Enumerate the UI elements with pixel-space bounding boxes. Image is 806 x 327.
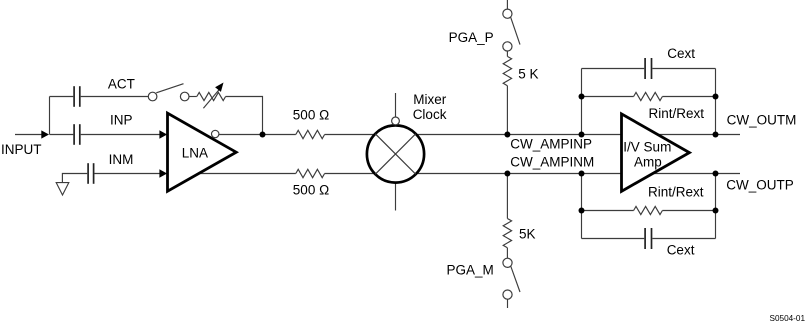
wire feedback top-right vertical: [715, 69, 717, 135]
svg-text:Cext: Cext: [667, 242, 695, 257]
arrow INPUT: [41, 130, 49, 138]
switch ACT lever: [156, 84, 183, 93]
wire LNA top output line: [219, 134, 296, 136]
svg-text:CW_OUTP: CW_OUTP: [726, 177, 794, 192]
junction dot Rint bottom right: [713, 208, 719, 214]
svg-text:INPUT: INPUT: [1, 142, 42, 157]
svg-text:CW_AMPINM: CW_AMPINM: [510, 154, 594, 169]
resistor ACT variable zigzag: [197, 92, 226, 100]
arrow INM into LNA: [159, 169, 167, 178]
wire Rint/Rext top branch left: [582, 96, 634, 98]
wire Rint/Rext top branch right: [662, 96, 715, 98]
svg-text:INP: INP: [110, 112, 133, 127]
svg-text:5 K: 5 K: [518, 67, 538, 82]
svg-text:500 Ω: 500 Ω: [293, 108, 329, 123]
wire ground stub INM: [62, 174, 87, 183]
wire INM segment to LNA: [95, 173, 161, 175]
svg-text:Amp: Amp: [634, 155, 662, 170]
svg-text:PGA_P: PGA_P: [449, 30, 494, 45]
switch PGA_P lever: [511, 17, 520, 44]
svg-text:Clock: Clock: [413, 107, 447, 122]
wire INP segment to LNA: [81, 134, 161, 136]
svg-text:ACT: ACT: [108, 76, 135, 91]
resistor 5K zigzag: [503, 219, 511, 248]
junction dot ACT-main: [260, 132, 266, 138]
capacitor Cext bottom: [645, 228, 651, 249]
wire ACT segment switch to varistor: [189, 96, 197, 98]
resistor Rint/Rext bottom zigzag: [634, 206, 663, 214]
svg-text:I/V Sum: I/V Sum: [623, 139, 671, 154]
svg-text:Rint/Rext: Rint/Rext: [649, 106, 705, 121]
switch PGA_M circle top: [503, 258, 512, 267]
varistor arrow diagonal: [203, 89, 219, 108]
wire 5K resistor to PGA_M switch: [506, 248, 508, 258]
junction dot CW_AMPINP feedback: [579, 132, 585, 138]
wire feedback bottom-right vertical: [715, 174, 717, 239]
switch ACT circle right: [180, 92, 189, 101]
LNA output bubble: [212, 130, 219, 137]
svg-text:Rint/Rext: Rint/Rext: [648, 184, 704, 199]
junction dot Rint top right: [713, 94, 719, 100]
svg-text:LNA: LNA: [182, 146, 208, 161]
junction dot output top: [713, 132, 719, 138]
wire Cext top branch right: [652, 68, 715, 70]
wire PGA_P top stub: [506, 0, 508, 9]
wire ACT segment left of cap: [50, 96, 74, 98]
wire INPUT lead: [15, 134, 42, 136]
wire ACT return to main line: [226, 97, 263, 135]
arrow INP into LNA: [159, 130, 167, 139]
svg-text:S0504-01: S0504-01: [770, 314, 806, 322]
op-amp U2 I/V Sum Amp: [622, 114, 690, 191]
wire PGA_M bottom stub: [507, 299, 509, 308]
junction dot PGA_P main: [504, 132, 510, 138]
resistor Rint/Rext top zigzag: [634, 92, 663, 100]
junction dot Rint bottom left: [579, 208, 585, 214]
switch PGA_M circle bottom: [503, 290, 512, 299]
wire mixer clock top stub: [395, 93, 397, 117]
resistor 5 K zigzag: [503, 56, 511, 85]
wire PGA_P switch to resistor: [506, 51, 508, 56]
svg-text:PGA_M: PGA_M: [447, 262, 494, 277]
wire bottom chain line to CW_OUTP: [325, 173, 740, 175]
op-amp LNA: [168, 113, 237, 191]
capacitor INM coupling: [88, 163, 94, 184]
wire top chain line to CW_OUTM: [325, 134, 740, 136]
varistor arrowhead: [215, 83, 223, 92]
wire mixer bottom stub: [395, 183, 397, 211]
capacitor ACT coupling: [74, 86, 80, 107]
wire node branch vertical to ACT row: [49, 97, 51, 135]
svg-text:CW_AMPINP: CW_AMPINP: [510, 136, 592, 151]
junction dot Rint top left: [579, 94, 585, 100]
wire Rint/Rext bottom branch right: [662, 210, 715, 212]
svg-text:CW_OUTM: CW_OUTM: [727, 112, 797, 127]
junction dot CW_AMPINM feedback: [579, 171, 585, 177]
junction dot output bottom: [713, 171, 719, 177]
wire LNA bottom output line: [183, 173, 296, 175]
wire bottom line to 5K resistor: [506, 174, 508, 219]
wire feedback bottom-left vertical: [581, 174, 583, 239]
ground symbol: [56, 183, 69, 195]
junction dot PGA_M main: [504, 171, 510, 177]
wire Cext bottom branch right: [652, 238, 715, 240]
wire INP segment left of cap: [50, 134, 74, 136]
switch PGA_P circle bottom: [503, 42, 512, 51]
svg-text:5K: 5K: [519, 227, 536, 242]
svg-text:INM: INM: [109, 152, 134, 167]
mixer circle: [367, 125, 424, 182]
svg-text:Cext: Cext: [667, 46, 695, 61]
wire Cext top branch left: [582, 68, 645, 70]
svg-text:Mixer: Mixer: [413, 92, 447, 107]
mixer clock input circle: [392, 117, 400, 125]
wire 5 K resistor to top line: [506, 86, 508, 135]
switch PGA_P circle top: [503, 9, 512, 18]
capacitor INP coupling: [74, 124, 80, 145]
svg-text:500 Ω: 500 Ω: [293, 183, 329, 198]
wire feedback top-left vertical: [581, 69, 583, 135]
mixer X diagonal 2: [375, 134, 415, 174]
switch ACT circle left: [148, 92, 157, 101]
switch PGA_M lever: [511, 266, 520, 292]
wire ACT segment to switch: [81, 96, 149, 98]
wire Rint/Rext bottom branch left: [582, 210, 634, 212]
capacitor Cext top: [645, 58, 651, 79]
resistor 500 ohm bottom zigzag: [296, 169, 325, 177]
resistor 500 ohm top zigzag: [296, 130, 325, 138]
mixer X diagonal 1: [375, 134, 415, 174]
wire Cext bottom branch left: [582, 238, 645, 240]
